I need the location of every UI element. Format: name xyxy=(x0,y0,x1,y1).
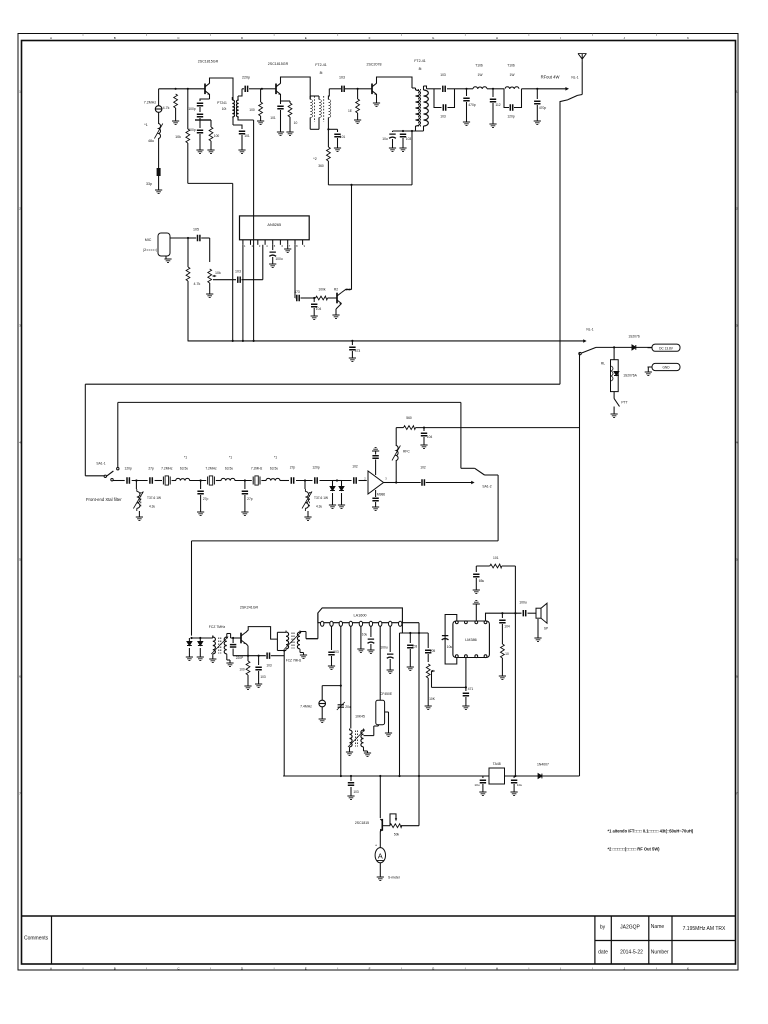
svg-text:10u: 10u xyxy=(362,633,368,637)
svg-text:7.195MHz AM TRX: 7.195MHz AM TRX xyxy=(683,926,726,932)
svg-text:360: 360 xyxy=(318,164,324,168)
svg-text:B: B xyxy=(114,36,116,40)
svg-text:*1: *1 xyxy=(144,123,147,127)
svg-text:A: A xyxy=(50,966,52,970)
svg-text:2SC2078: 2SC2078 xyxy=(367,63,382,67)
svg-text:10u: 10u xyxy=(517,783,522,787)
svg-text:10t: 10t xyxy=(222,107,227,111)
svg-text:10k: 10k xyxy=(175,135,181,139)
svg-text:*1: *1 xyxy=(229,456,232,460)
svg-text:560: 560 xyxy=(406,416,412,420)
svg-text:105: 105 xyxy=(430,649,436,653)
svg-text:H: H xyxy=(496,36,498,40)
svg-text:FT2-41: FT2-41 xyxy=(315,63,327,67)
svg-text:*1: *1 xyxy=(184,456,187,460)
svg-text:27p: 27p xyxy=(203,497,209,501)
svg-text:100: 100 xyxy=(214,134,220,138)
svg-text:*1: *1 xyxy=(274,456,277,460)
svg-text:100: 100 xyxy=(239,668,245,672)
svg-text:33p: 33p xyxy=(146,182,152,186)
svg-text:RFC: RFC xyxy=(403,450,410,454)
svg-text:27p: 27p xyxy=(148,466,154,470)
svg-text:100k: 100k xyxy=(318,288,326,292)
svg-text:100u: 100u xyxy=(519,601,527,605)
svg-text:JA2GQP: JA2GQP xyxy=(620,925,640,931)
svg-text:E: E xyxy=(305,966,307,970)
svg-text:Name: Name xyxy=(651,924,665,930)
svg-text:F: F xyxy=(369,36,371,40)
svg-text:M986: M986 xyxy=(377,493,385,497)
svg-text:(2□□□□□): (2□□□□□) xyxy=(143,248,157,252)
svg-text:101: 101 xyxy=(493,556,499,560)
svg-text:E: E xyxy=(305,36,307,40)
svg-text:103: 103 xyxy=(440,73,446,77)
svg-text:TA48: TA48 xyxy=(493,762,501,766)
svg-text:104: 104 xyxy=(316,307,322,311)
svg-text:10K45: 10K45 xyxy=(355,715,365,719)
svg-text:2SC1815GR: 2SC1815GR xyxy=(198,60,219,64)
svg-text:220P: 220P xyxy=(236,656,243,660)
svg-text:*2 □□□□□(□□□□ RF Out 5W): *2 □□□□□(□□□□ RF Out 5W) xyxy=(608,847,661,852)
svg-text:27p: 27p xyxy=(290,465,296,469)
svg-text:470p: 470p xyxy=(539,106,547,110)
svg-text:RFout 4W: RFout 4W xyxy=(541,75,560,80)
svg-text:102: 102 xyxy=(352,464,358,468)
svg-text:T37-6 1W: T37-6 1W xyxy=(147,496,161,500)
svg-text:*1 aitendo IFT□□□ 0.1□□□□: *1 aitendo IFT□□□ 0.1□□□□ 43t(□50uH~70uH… xyxy=(608,829,694,834)
svg-text:103: 103 xyxy=(339,76,345,80)
svg-text:102: 102 xyxy=(420,466,426,470)
svg-text:63.5u: 63.5u xyxy=(270,466,278,470)
svg-text:by: by xyxy=(600,925,606,931)
svg-text:NL-1: NL-1 xyxy=(586,328,593,332)
svg-text:103: 103 xyxy=(235,270,241,274)
svg-text:NL-1: NL-1 xyxy=(571,76,578,80)
svg-text:103: 103 xyxy=(266,664,272,668)
svg-text:PTT: PTT xyxy=(621,401,627,405)
svg-text:104: 104 xyxy=(427,435,433,439)
svg-text:A: A xyxy=(50,36,52,40)
svg-text:A: A xyxy=(378,852,383,861)
svg-text:103: 103 xyxy=(406,137,412,141)
svg-text:120p: 120p xyxy=(312,465,320,469)
svg-text:SA1-1: SA1-1 xyxy=(96,462,105,466)
svg-text:8t: 8t xyxy=(320,71,323,75)
svg-text:10u: 10u xyxy=(474,783,479,787)
svg-text:65u: 65u xyxy=(479,579,485,583)
svg-text:103: 103 xyxy=(353,790,359,794)
svg-text:100: 100 xyxy=(249,108,255,112)
svg-text:Comments: Comments xyxy=(24,936,49,942)
svg-text:1W: 1W xyxy=(510,73,516,77)
svg-text:*2: *2 xyxy=(313,157,316,161)
svg-text:GND: GND xyxy=(662,366,670,370)
svg-text:100p: 100p xyxy=(188,107,196,111)
svg-text:AN5265: AN5265 xyxy=(267,223,281,227)
svg-text:7.2MHz: 7.2MHz xyxy=(251,466,263,470)
svg-text:7.2MHz: 7.2MHz xyxy=(161,466,173,470)
svg-text:PT241: PT241 xyxy=(217,101,227,105)
svg-text:S-meter: S-meter xyxy=(388,876,401,880)
svg-text:20u: 20u xyxy=(345,705,351,709)
svg-text:LM386: LM386 xyxy=(465,638,477,642)
svg-text:10: 10 xyxy=(505,652,509,656)
svg-text:RL: RL xyxy=(601,362,605,366)
svg-text:4.3u: 4.3u xyxy=(149,505,155,509)
svg-text:B: B xyxy=(114,966,116,970)
svg-text:CF450E: CF450E xyxy=(380,692,393,696)
svg-text:10: 10 xyxy=(294,121,298,125)
svg-text:4.3u: 4.3u xyxy=(316,505,322,509)
svg-text:2SC1815: 2SC1815 xyxy=(355,821,369,825)
svg-text:104: 104 xyxy=(504,625,510,629)
svg-text:I: I xyxy=(560,36,561,40)
svg-text:1W: 1W xyxy=(478,73,484,77)
svg-text:48u: 48u xyxy=(148,139,154,143)
svg-text:T106: T106 xyxy=(475,64,483,68)
svg-text:10u: 10u xyxy=(447,645,453,649)
svg-text:103: 103 xyxy=(260,675,266,679)
svg-text:7.2MHz: 7.2MHz xyxy=(205,466,217,470)
svg-text:K: K xyxy=(687,36,689,40)
svg-text:2SK241GR: 2SK241GR xyxy=(240,606,259,610)
svg-text:220p: 220p xyxy=(242,76,250,80)
svg-text:7.4MHz: 7.4MHz xyxy=(300,705,312,709)
svg-text:T37-6 1W: T37-6 1W xyxy=(314,496,328,500)
svg-text:100u: 100u xyxy=(380,646,388,650)
svg-text:F: F xyxy=(369,966,371,970)
svg-text:SA1-2: SA1-2 xyxy=(482,485,491,489)
svg-text:103: 103 xyxy=(440,115,446,119)
svg-text:101: 101 xyxy=(270,116,276,120)
svg-text:101: 101 xyxy=(244,134,250,138)
svg-text:103: 103 xyxy=(333,650,339,654)
svg-text:63.5u: 63.5u xyxy=(180,466,188,470)
svg-text:2014-5-22: 2014-5-22 xyxy=(620,950,643,956)
svg-text:R2: R2 xyxy=(334,288,338,292)
svg-text:date: date xyxy=(598,950,608,956)
svg-text:1N4007: 1N4007 xyxy=(537,763,549,767)
svg-text:DC 13.8V: DC 13.8V xyxy=(659,346,674,350)
svg-text:112: 112 xyxy=(495,103,500,107)
svg-text:50k: 50k xyxy=(394,833,400,837)
svg-text:10K: 10K xyxy=(429,697,436,701)
svg-text:10k: 10k xyxy=(215,271,221,275)
svg-text:8t: 8t xyxy=(419,67,422,71)
svg-text:100p: 100p xyxy=(188,128,196,132)
svg-text:120p: 120p xyxy=(125,466,133,470)
svg-text:Number: Number xyxy=(651,950,669,956)
svg-text:4.7k: 4.7k xyxy=(194,282,201,286)
svg-text:103: 103 xyxy=(412,645,418,649)
svg-text:471: 471 xyxy=(468,687,474,691)
svg-text:Front-end Xtal filter: Front-end Xtal filter xyxy=(86,497,122,502)
svg-text:MIC: MIC xyxy=(145,238,152,242)
svg-text:I: I xyxy=(560,966,561,970)
svg-text:FCZ 7MHz: FCZ 7MHz xyxy=(209,625,226,629)
svg-text:1S2076: 1S2076 xyxy=(628,335,640,339)
svg-text:1S2076A: 1S2076A xyxy=(623,374,637,378)
svg-text:2SC1815GR: 2SC1815GR xyxy=(268,62,289,66)
svg-text:LA1600: LA1600 xyxy=(353,614,366,618)
svg-text:7.2MHz: 7.2MHz xyxy=(144,101,157,105)
svg-text:10u: 10u xyxy=(382,137,388,141)
svg-text:470p: 470p xyxy=(468,103,476,107)
svg-text:SP: SP xyxy=(544,627,548,631)
svg-text:101: 101 xyxy=(340,135,346,139)
svg-text:473: 473 xyxy=(355,349,361,353)
svg-text:FCZ 7MHz: FCZ 7MHz xyxy=(286,659,302,663)
svg-text:27p: 27p xyxy=(247,497,253,501)
svg-text:120p: 120p xyxy=(507,115,515,119)
svg-text:FT2-41: FT2-41 xyxy=(414,59,426,63)
svg-text:105: 105 xyxy=(193,228,199,232)
svg-text:473: 473 xyxy=(294,290,300,294)
svg-text:K: K xyxy=(687,966,689,970)
svg-text:4.7k: 4.7k xyxy=(163,106,170,110)
svg-text:63.5u: 63.5u xyxy=(225,466,233,470)
svg-text:T106: T106 xyxy=(507,64,515,68)
svg-text:100u: 100u xyxy=(275,257,283,261)
svg-text:H: H xyxy=(496,966,498,970)
